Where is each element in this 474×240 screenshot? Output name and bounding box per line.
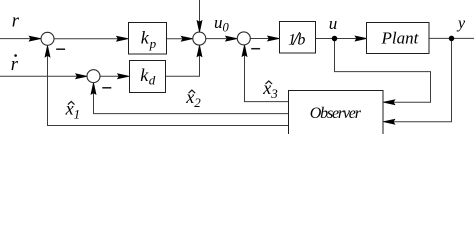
node u dot	[332, 36, 337, 41]
block Observer box	[289, 91, 384, 140]
minus sign at summer3	[251, 48, 260, 50]
wire kp to summer2	[167, 38, 183, 40]
block 1/b box	[280, 22, 316, 54]
minus sign at summer4	[102, 87, 111, 89]
arrowhead into summer2 left	[181, 36, 193, 41]
wire 1/b to Plant with node u	[316, 38, 358, 40]
arrowhead into Observer right upper (u)	[383, 100, 395, 105]
svg-text:b: b	[297, 32, 305, 49]
wire y feedback down-left into Observer	[393, 38, 452, 121]
arrowhead into summer3 bottom (x3hat)	[242, 45, 247, 57]
block Plant box	[367, 23, 430, 54]
wire x3hat from Observer to summer3	[245, 55, 289, 102]
wire summer3 to 1/b	[250, 38, 269, 40]
wire summer1 to kp	[54, 38, 118, 40]
arrowhead into Observer right lower (y)	[383, 119, 395, 124]
svg-text:Observer: Observer	[310, 105, 362, 122]
wire kd up into summer2	[166, 55, 200, 77]
arrowhead into summer1 bottom (x1hat)	[45, 45, 50, 57]
wire rdot input	[0, 75, 78, 77]
wire Plant to output y	[429, 37, 474, 39]
arrowhead into kd	[118, 74, 130, 79]
block kp box	[129, 23, 167, 55]
summer4 (rdot - x2hat)	[87, 70, 100, 83]
block kd box	[130, 61, 166, 93]
arrowhead into summer1	[29, 36, 41, 41]
arrowhead into summer3 left	[226, 36, 238, 41]
wire summer4 to kd	[100, 75, 119, 77]
svg-text:r: r	[11, 55, 19, 75]
arrowhead into kp	[117, 36, 129, 41]
arrowhead into summer4 left (rdot)	[76, 74, 88, 79]
wire x1hat from Observer to summer1	[48, 55, 289, 125]
node y dot	[449, 36, 454, 41]
wire x2hat from Observer to summer4	[94, 93, 289, 114]
svg-text:Plant: Plant	[381, 28, 420, 47]
wire r input	[0, 38, 31, 40]
arrowhead into Plant	[355, 36, 367, 41]
wire top feedforward into summer2	[199, 0, 201, 23]
svg-text:y: y	[456, 15, 466, 32]
svg-text:u: u	[329, 14, 338, 33]
svg-text:r: r	[12, 11, 20, 31]
wire summer2 to summer3	[206, 38, 228, 40]
summer2 (u0 junction)	[193, 32, 206, 45]
summer1 (r - x1hat)	[41, 32, 54, 45]
summer3 (u0 - x3hat)	[237, 32, 250, 45]
arrowhead into summer2 top	[197, 21, 202, 33]
arrowhead into summer4 bottom (x2hat)	[91, 83, 96, 95]
arrowhead into summer2 bottom (from kd)	[197, 45, 202, 57]
wire u feedback down-right-down-left into Observer	[335, 39, 431, 103]
arrowhead into 1/b	[268, 36, 280, 41]
minus sign at summer1	[56, 48, 65, 50]
